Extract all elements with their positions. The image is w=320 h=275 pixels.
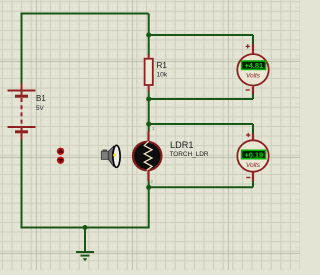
wire left vertical: [21, 13, 23, 85]
wire LDR bottom to rail: [148, 181, 150, 229]
svg-text:+4.81: +4.81: [245, 61, 264, 70]
ground: [76, 228, 94, 261]
svg-text:10k: 10k: [157, 72, 168, 79]
svg-text:R1: R1: [157, 61, 168, 70]
torch up button: [57, 148, 64, 155]
wire junction R1 top to voltmeter VM1: [149, 35, 253, 44]
node junction at ground: [83, 225, 88, 230]
LDR1: [133, 131, 161, 181]
node junction at LDR bottom: [146, 185, 151, 190]
torch icon: [101, 145, 120, 167]
minus sign VM2: [246, 177, 250, 179]
svg-text:LDR1: LDR1: [170, 140, 194, 150]
node junction at R1 bottom: [146, 97, 151, 102]
wire battery bottom to rail: [21, 139, 23, 229]
wire resistor bottom to junction: [148, 91, 150, 99]
resistor R1: [145, 55, 153, 92]
wire voltmeter VM2 bottom to junction: [149, 181, 253, 188]
node junction at LDR top: [146, 122, 151, 127]
svg-text:TORCH_LDR: TORCH_LDR: [170, 151, 209, 158]
svg-text:B1: B1: [36, 94, 46, 103]
node junction at R1 top: [146, 33, 151, 38]
svg-text:Volts: Volts: [246, 73, 261, 80]
wire junction LDR top to voltmeter VM2: [149, 124, 253, 134]
wire top rail: [22, 13, 149, 15]
minus sign VM1: [246, 89, 250, 91]
svg-text:Volts: Volts: [246, 162, 261, 169]
svg-text:+0.19: +0.19: [245, 150, 264, 159]
plus sign VM2: [246, 133, 250, 137]
wire bottom rail: [21, 227, 149, 229]
torch down button: [57, 157, 64, 164]
svg-text:5V: 5V: [36, 105, 45, 112]
wire middle vertical upper: [148, 14, 150, 56]
wire junction to LDR top: [148, 99, 150, 132]
wire voltmeter VM1 bottom to junction: [149, 94, 253, 100]
voltmeter VM1: [237, 44, 268, 94]
battery B1: [8, 84, 36, 140]
voltmeter VM2: [237, 134, 268, 182]
plus sign VM1: [246, 44, 250, 48]
